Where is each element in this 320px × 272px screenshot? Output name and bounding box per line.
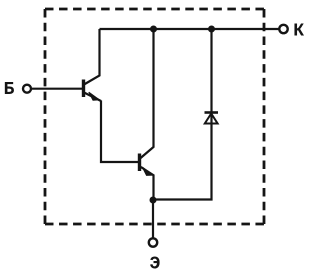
junction node: diode branch on rail xyxy=(208,26,215,33)
wire: top collector rail xyxy=(100,28,280,30)
package outline xyxy=(45,9,264,224)
wire: VT1 emitter to VT2 base xyxy=(101,101,139,163)
wire: diode branch xyxy=(153,29,212,200)
svg-text:Э: Э xyxy=(150,255,161,272)
junction node: emitter xyxy=(150,197,157,204)
junction node: VT2 collector on rail xyxy=(150,26,157,33)
diode VD1 xyxy=(205,113,219,124)
svg-text:К: К xyxy=(293,22,304,42)
terminal Э xyxy=(149,200,161,272)
terminal К xyxy=(279,22,304,42)
svg-text:Б: Б xyxy=(4,80,15,100)
transistor VT2 xyxy=(140,29,155,200)
terminal Б xyxy=(4,80,84,100)
transistor VT1 xyxy=(84,29,102,101)
